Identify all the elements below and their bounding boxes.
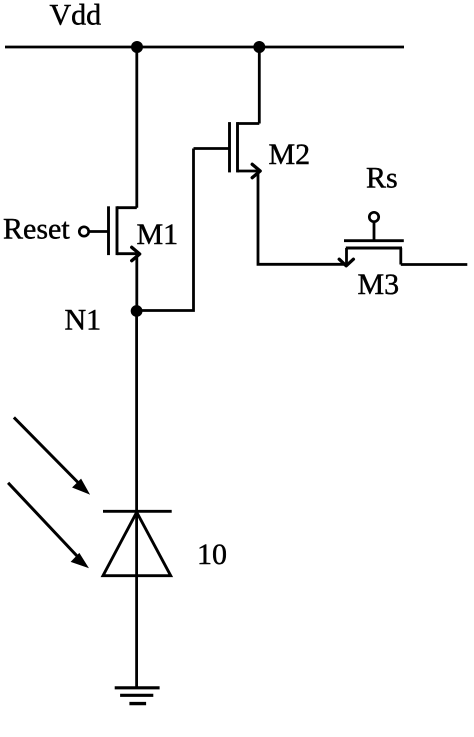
M1 source lead — [117, 252, 137, 255]
svg-text:N1: N1 — [65, 303, 102, 336]
M3 gate bar — [344, 239, 404, 242]
light arrow 1 — [14, 417, 89, 493]
node: junction dot Vdd/M1 — [131, 41, 143, 53]
ground bar 3 — [129, 702, 146, 705]
transistor M1 — [89, 206, 140, 260]
light arrow 2 head — [72, 554, 87, 567]
wire: Vdd to M1 drain — [135, 47, 138, 208]
terminal circle: Rs input — [369, 212, 378, 221]
svg-text:Vdd: Vdd — [50, 0, 102, 32]
wire: Vdd to M2 drain — [258, 47, 261, 124]
svg-text:Rs: Rs — [366, 162, 398, 195]
M3 drain lead — [399, 248, 402, 265]
transistor M2 — [194, 122, 261, 178]
M2 source lead — [238, 170, 259, 173]
wire: M3 drain to output — [401, 263, 468, 266]
photodiode triangle — [103, 512, 171, 576]
light arrow 1 head — [73, 480, 88, 493]
light arrow 1 shaft — [14, 417, 81, 485]
M2 source arrow — [252, 164, 260, 177]
M1 channel bar — [116, 206, 119, 255]
M3 source arrow — [339, 259, 353, 266]
wire: N1 to photodiode cathode — [135, 311, 138, 511]
photodiode cathode bar — [103, 510, 172, 513]
ground — [115, 688, 160, 704]
photodiode 10 — [103, 511, 172, 575]
node: junction dot Vdd/M2 — [253, 41, 265, 53]
M2 channel bar — [236, 122, 239, 172]
M2 gate bar — [228, 122, 231, 172]
wire: N1 to M2 gate — [137, 149, 194, 311]
ground bar 1 — [115, 686, 160, 689]
svg-text:M2: M2 — [269, 138, 311, 171]
wire: M1 source to node N1 — [135, 254, 138, 311]
M3 gate lead — [373, 222, 376, 241]
wire: M2 source to M3 source — [258, 171, 347, 264]
M1 source arrow — [132, 247, 140, 260]
M3 source lead — [345, 248, 348, 264]
svg-text:10: 10 — [197, 538, 227, 571]
M1 gate lead — [89, 230, 109, 233]
light arrow 2 shaft — [8, 483, 79, 559]
ground bar 2 — [120, 694, 153, 697]
M2 drain lead — [238, 122, 260, 125]
M1 drain lead — [117, 206, 137, 209]
node N1 junction dot — [131, 305, 143, 317]
photodiode internal wire — [135, 511, 138, 575]
terminal circle: Reset input — [79, 227, 88, 236]
light arrow 2 — [8, 483, 87, 567]
svg-text:M3: M3 — [358, 268, 400, 301]
wire: Vdd power rail — [5, 46, 404, 49]
wire: photodiode anode to ground — [135, 576, 138, 688]
M1 gate bar — [107, 206, 110, 255]
M3 channel bar — [346, 247, 402, 250]
transistor M3 — [339, 222, 404, 266]
M2 gate lead — [194, 147, 230, 150]
svg-text:M1: M1 — [137, 218, 179, 251]
svg-text:Reset: Reset — [3, 213, 70, 246]
